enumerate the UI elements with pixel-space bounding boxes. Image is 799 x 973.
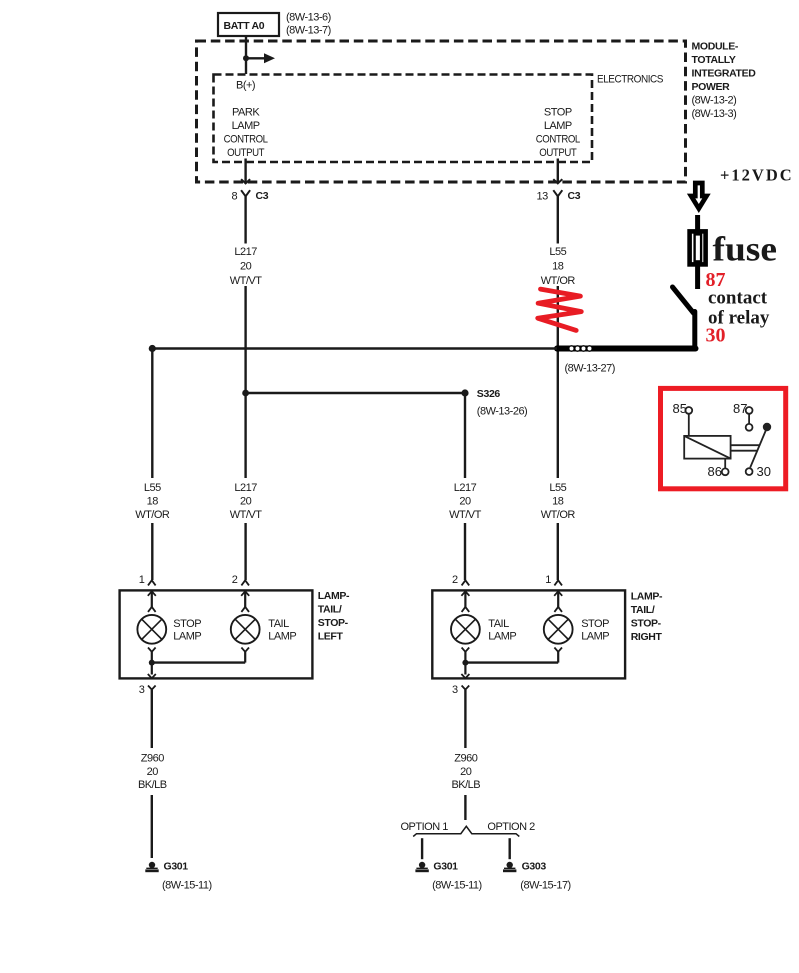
svg-text:85: 85 bbox=[673, 401, 687, 416]
ground wire Z960 right bbox=[464, 690, 466, 820]
svg-text:(8W-13-3): (8W-13-3) bbox=[692, 108, 737, 120]
svg-text:PARK: PARK bbox=[232, 107, 260, 119]
svg-text:WT/OR: WT/OR bbox=[541, 275, 576, 287]
svg-text:WT/VT: WT/VT bbox=[230, 509, 262, 521]
ground wire Z960 left bbox=[151, 690, 153, 858]
wire label Z960 20 BK/LB left bbox=[138, 752, 167, 791]
svg-text:LAMP: LAMP bbox=[268, 630, 296, 642]
svg-text:(8W-15-17): (8W-15-17) bbox=[520, 879, 570, 891]
terminal arrow into left box pin 1 bbox=[148, 591, 156, 612]
lamp TAIL LAMP right bbox=[451, 615, 480, 644]
connector C3 pin 8 bbox=[232, 190, 269, 203]
svg-text:(8W-15-11): (8W-15-11) bbox=[162, 879, 212, 891]
annotation hollow arrow down bbox=[691, 183, 706, 209]
svg-text:WT/OR: WT/OR bbox=[135, 509, 170, 521]
node lamp return junction right bbox=[462, 660, 468, 666]
svg-text:1: 1 bbox=[139, 574, 145, 586]
label PARK LAMP CONTROL OUTPUT bbox=[224, 107, 268, 160]
relay pin 86 terminal bbox=[722, 459, 729, 476]
svg-text:STOP-: STOP- bbox=[631, 618, 662, 630]
wire below fuse (hand drawn) bbox=[695, 266, 700, 289]
wire label L217 20 WT/VT bbox=[230, 246, 262, 287]
svg-text:Z960: Z960 bbox=[454, 752, 477, 764]
wire park lamp output to connector C3 pin 8 bbox=[241, 159, 250, 184]
svg-text:OUTPUT: OUTPUT bbox=[227, 147, 265, 159]
svg-text:LAMP: LAMP bbox=[488, 630, 516, 642]
lamp STOP LAMP right bbox=[544, 615, 573, 644]
electronics box (inner dashed) bbox=[214, 75, 593, 163]
wire below tail lamp right bbox=[461, 648, 469, 679]
label LAMP-TAIL/STOP-RIGHT bbox=[631, 591, 663, 644]
svg-text:LAMP: LAMP bbox=[581, 630, 609, 642]
coil marks on hand wire bbox=[569, 346, 592, 351]
splice S326 branch wire bbox=[246, 392, 465, 395]
svg-text:LEFT: LEFT bbox=[318, 630, 344, 642]
svg-text:LAMP: LAMP bbox=[544, 120, 572, 132]
connector pin 1 right box bbox=[545, 574, 562, 586]
svg-text:TAIL/: TAIL/ bbox=[631, 604, 655, 616]
svg-text:18: 18 bbox=[552, 261, 564, 273]
lamp STOP LAMP left bbox=[137, 615, 166, 644]
wire label Z960 20 BK/LB right bbox=[451, 752, 480, 791]
relay mechanical link lines bbox=[731, 445, 760, 451]
svg-text:3: 3 bbox=[139, 684, 145, 696]
wire L55 from C3 pin 13 down bbox=[557, 196, 559, 580]
node where hand wire meets stop wire bbox=[555, 345, 561, 351]
label LAMP-TAIL/STOP-LEFT bbox=[318, 590, 350, 642]
wire link between lamps left box bbox=[152, 661, 245, 663]
wire L217 from C3 pin 8 down bbox=[244, 196, 246, 393]
connector pin 1 left box bbox=[139, 574, 156, 586]
svg-text:LAMP-: LAMP- bbox=[318, 590, 350, 602]
wire from S326 to right box pin 2 bbox=[464, 393, 466, 580]
connector pin 2 left box bbox=[232, 574, 249, 586]
svg-text:fuse: fuse bbox=[713, 230, 778, 269]
svg-text:L217: L217 bbox=[234, 246, 257, 258]
svg-text:WT/VT: WT/VT bbox=[449, 509, 481, 521]
svg-text:LAMP: LAMP bbox=[232, 120, 260, 132]
svg-text:13: 13 bbox=[537, 191, 549, 203]
svg-text:WT/OR: WT/OR bbox=[541, 509, 576, 521]
svg-text:RIGHT: RIGHT bbox=[631, 631, 663, 643]
svg-text:L55: L55 bbox=[549, 246, 566, 258]
svg-text:STOP: STOP bbox=[173, 618, 201, 630]
svg-text:POWER: POWER bbox=[692, 81, 731, 93]
relay pin 85 terminal bbox=[685, 407, 692, 414]
svg-text:8: 8 bbox=[232, 191, 238, 203]
thick wire from relay contact to stop lamp feed (hand drawn) bbox=[557, 346, 696, 352]
svg-text:20: 20 bbox=[147, 766, 159, 778]
svg-text:C3: C3 bbox=[568, 190, 581, 202]
svg-text:(8W-13-7): (8W-13-7) bbox=[286, 25, 331, 37]
svg-text:BK/LB: BK/LB bbox=[138, 779, 167, 791]
wire left stop lamp feed L55 bbox=[151, 349, 153, 581]
wire option 1 ground bbox=[421, 838, 423, 859]
fuse symbol (hand drawn) bbox=[690, 231, 706, 264]
svg-text:18: 18 bbox=[147, 496, 159, 508]
wire option 2 ground bbox=[509, 838, 511, 859]
svg-text:TOTALLY: TOTALLY bbox=[692, 54, 736, 66]
relay pin 87 terminal bbox=[746, 407, 753, 431]
svg-text:S326: S326 bbox=[477, 388, 501, 400]
wire below stop lamp right bbox=[554, 648, 562, 663]
svg-text:LAMP-: LAMP- bbox=[631, 591, 663, 603]
connector C3 pin 13 bbox=[537, 190, 581, 203]
battery feed box BATT A0 bbox=[218, 13, 279, 36]
svg-text:OUTPUT: OUTPUT bbox=[539, 147, 577, 159]
svg-text:(8W-13-26): (8W-13-26) bbox=[477, 406, 527, 418]
svg-text:86: 86 bbox=[708, 464, 722, 479]
relay coil U (box with diagonal) bbox=[684, 436, 730, 459]
svg-text:INTEGRATED: INTEGRATED bbox=[692, 68, 757, 80]
stop feed bus wire bbox=[152, 347, 557, 350]
svg-text:TAIL: TAIL bbox=[488, 618, 509, 630]
svg-text:(8W-13-6): (8W-13-6) bbox=[286, 12, 331, 24]
arrow branch to right bbox=[246, 53, 275, 63]
svg-text:B(+): B(+) bbox=[236, 80, 255, 92]
relay contact arm (hand drawn switch) bbox=[673, 287, 695, 346]
svg-text:OPTION 2: OPTION 2 bbox=[487, 821, 535, 833]
wire stop lamp output to connector C3 pin 13 bbox=[553, 159, 562, 184]
relay common post node bbox=[763, 423, 771, 431]
relay sketch red frame bbox=[661, 388, 786, 488]
svg-text:20: 20 bbox=[240, 261, 252, 273]
svg-text:G303: G303 bbox=[522, 861, 547, 873]
wire from BATT A0 into module bbox=[245, 36, 247, 74]
node junction on battery feed bbox=[243, 55, 249, 61]
svg-text:18: 18 bbox=[552, 496, 564, 508]
ground G301 right bbox=[415, 862, 428, 872]
svg-text:L55: L55 bbox=[144, 482, 161, 494]
svg-text:3: 3 bbox=[452, 684, 458, 696]
terminal arrow into right box pin 2 bbox=[461, 591, 469, 612]
svg-text:BK/LB: BK/LB bbox=[451, 779, 480, 791]
svg-text:TAIL/: TAIL/ bbox=[318, 604, 342, 616]
wire label L55 18 WT/OR left bbox=[135, 482, 170, 521]
svg-text:20: 20 bbox=[460, 766, 472, 778]
svg-text:30: 30 bbox=[757, 464, 771, 479]
svg-text:TAIL: TAIL bbox=[268, 618, 289, 630]
svg-text:2: 2 bbox=[232, 574, 238, 586]
svg-text:MODULE-: MODULE- bbox=[692, 41, 739, 53]
terminal arrow into right box pin 1 bbox=[554, 591, 562, 612]
svg-text:L217: L217 bbox=[234, 482, 257, 494]
label MODULE-TOTALLY INTEGRATED POWER bbox=[692, 41, 757, 121]
svg-text:20: 20 bbox=[459, 496, 471, 508]
terminal arrow into left box pin 2 bbox=[241, 591, 249, 612]
ground G301 left bbox=[145, 862, 158, 872]
wire park lamp feed to left box pin 2 bbox=[244, 393, 246, 580]
wire label L217 20 WT/VT left bbox=[230, 482, 262, 521]
svg-text:L55: L55 bbox=[549, 482, 566, 494]
wire label L55 18 WT/OR right bbox=[541, 482, 576, 521]
svg-text:G301: G301 bbox=[433, 861, 458, 873]
svg-text:(8W-15-11): (8W-15-11) bbox=[432, 879, 482, 891]
ground G303 bbox=[503, 862, 516, 872]
svg-text:STOP-: STOP- bbox=[318, 617, 349, 629]
svg-text:C3: C3 bbox=[256, 190, 269, 202]
svg-text:+12VDC: +12VDC bbox=[720, 166, 794, 185]
module box TOTALLY INTEGRATED POWER (outer dashed) bbox=[197, 41, 686, 182]
relay switch arm bbox=[750, 430, 766, 468]
svg-text:(8W-13-2): (8W-13-2) bbox=[692, 95, 737, 107]
svg-text:LAMP: LAMP bbox=[173, 630, 201, 642]
node S326 bbox=[461, 389, 468, 396]
wire pin 85 to coil bbox=[688, 414, 690, 436]
wire link between lamps right box bbox=[465, 661, 558, 663]
label STOP LAMP CONTROL OUTPUT bbox=[536, 107, 580, 160]
svg-text:20: 20 bbox=[240, 496, 252, 508]
wire into fuse (hand drawn) bbox=[695, 215, 700, 230]
svg-text:G301: G301 bbox=[164, 861, 189, 873]
svg-text:STOP: STOP bbox=[544, 107, 572, 119]
left lamp box LAMP-TAIL/STOP-LEFT bbox=[120, 590, 313, 678]
svg-text:OPTION 1: OPTION 1 bbox=[401, 821, 449, 833]
wire below tail lamp left bbox=[241, 648, 249, 663]
option brace bbox=[413, 826, 519, 836]
svg-text:2: 2 bbox=[452, 574, 458, 586]
svg-text:ELECTRONICS: ELECTRONICS bbox=[597, 74, 663, 86]
lamp TAIL LAMP left bbox=[231, 615, 260, 644]
svg-text:STOP: STOP bbox=[581, 618, 609, 630]
connector pin 3 left box bbox=[139, 684, 156, 696]
node splice at park wire bbox=[242, 390, 249, 397]
svg-text:CONTROL: CONTROL bbox=[224, 134, 268, 146]
wire label L55 18 WT/OR bbox=[541, 246, 576, 287]
svg-text:30: 30 bbox=[706, 324, 726, 346]
svg-text:(8W-13-27): (8W-13-27) bbox=[565, 363, 615, 375]
svg-text:L217: L217 bbox=[454, 482, 477, 494]
svg-text:CONTROL: CONTROL bbox=[536, 134, 580, 146]
node lamp return junction left bbox=[149, 660, 155, 666]
wire below stop lamp left bbox=[148, 648, 156, 679]
svg-text:WT/VT: WT/VT bbox=[230, 275, 262, 287]
right lamp box LAMP-TAIL/STOP-RIGHT bbox=[432, 590, 625, 678]
red annotation scribble (zigzag over L55 wire) bbox=[538, 289, 582, 330]
svg-text:Z960: Z960 bbox=[141, 752, 164, 764]
connector pin 3 right box bbox=[452, 684, 469, 696]
svg-text:contact: contact bbox=[708, 287, 768, 308]
svg-text:1: 1 bbox=[545, 574, 551, 586]
relay pin 30 terminal bbox=[746, 468, 753, 475]
wire label L217 20 WT/VT right bbox=[449, 482, 481, 521]
svg-text:BATT A0: BATT A0 bbox=[224, 20, 265, 32]
connector pin 2 right box bbox=[452, 574, 469, 586]
node left end of bus bbox=[149, 345, 156, 352]
